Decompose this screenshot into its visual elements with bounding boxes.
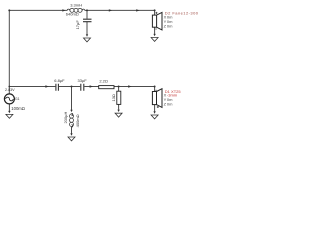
svg-text:200μH: 200μH bbox=[63, 112, 68, 124]
svg-text:400mΩ: 400mΩ bbox=[75, 114, 80, 127]
svg-text:13Ω: 13Ω bbox=[111, 94, 116, 101]
svg-text:17μF: 17μF bbox=[75, 20, 80, 30]
svg-text:3.3mH: 3.3mH bbox=[70, 3, 82, 8]
svg-text:100mΩ: 100mΩ bbox=[11, 106, 25, 111]
svg-text:640mΩ: 640mΩ bbox=[66, 12, 79, 17]
svg-text:G1: G1 bbox=[15, 97, 20, 101]
svg-text:6.8μF: 6.8μF bbox=[54, 78, 65, 83]
svg-text:2.83V: 2.83V bbox=[5, 88, 15, 92]
svg-text:2.2Ω: 2.2Ω bbox=[99, 78, 108, 83]
svg-text:33μF: 33μF bbox=[77, 78, 87, 83]
svg-text:Z 0m: Z 0m bbox=[164, 24, 174, 29]
svg-text:Z 0m: Z 0m bbox=[164, 102, 174, 107]
